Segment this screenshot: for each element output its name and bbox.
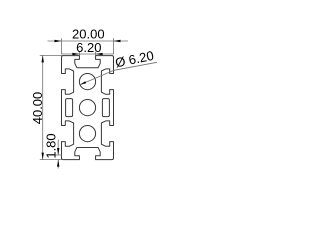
dim 6.20 extension lines (78, 52, 80, 56)
dim 20.00 extension lines (61, 38, 63, 54)
dim 1.80 extension line upper (50, 154, 63, 156)
svg-text:1.80: 1.80 (43, 133, 58, 158)
leader line for diameter (80, 62, 157, 84)
dim 40.00 extension lines (40, 54, 63, 56)
dim 1.80 line upper tail (57, 140, 59, 156)
dim 20.00 line (48, 40, 129, 42)
dim 40.00 line (42, 55, 44, 159)
dim 20.00 arrows (55, 40, 62, 42)
web void left (66, 99, 73, 117)
web void right (102, 99, 109, 117)
core hole bottom (79, 126, 95, 142)
dim 1.80 arrows (57, 148, 59, 155)
svg-text:Ø 6.20: Ø 6.20 (114, 48, 155, 70)
core hole top (79, 74, 95, 90)
dim 6.20 line (62, 53, 114, 55)
svg-text:40.00: 40.00 (30, 92, 45, 125)
dim 6.20 arrows (72, 53, 79, 55)
dim 1.80 line lower tail (57, 160, 59, 169)
dim 40.00 arrows (42, 55, 44, 62)
leader arrow (80, 81, 86, 84)
svg-text:6.20: 6.20 (76, 40, 101, 55)
core hole middle (79, 100, 95, 116)
profile outline (62, 56, 114, 160)
